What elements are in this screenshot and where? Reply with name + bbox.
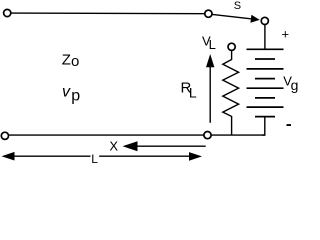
node input terminal bottom-left bbox=[1, 132, 8, 139]
wire bottom conductor bbox=[8, 134, 265, 136]
svg-text:v: v bbox=[62, 84, 71, 101]
wire battery bottom bbox=[262, 117, 265, 136]
svg-text:Z: Z bbox=[62, 51, 71, 68]
svg-text:X: X bbox=[109, 139, 118, 154]
switch S pivot node bbox=[205, 10, 212, 17]
svg-text:L: L bbox=[209, 37, 216, 52]
wire switch to battery bbox=[264, 25, 266, 49]
battery Vg minus sign bbox=[287, 124, 292, 126]
wire top conductor bbox=[9, 12, 206, 15]
switch throw node bbox=[261, 17, 268, 24]
svg-text:p: p bbox=[71, 87, 80, 104]
resistor RL zigzag bbox=[223, 50, 239, 135]
node load terminal bottom bbox=[204, 132, 211, 139]
switch S blade bbox=[212, 14, 251, 18]
svg-text:o: o bbox=[71, 53, 79, 70]
dimension arrow L bbox=[2, 152, 15, 161]
voltage arrow VL bbox=[209, 66, 211, 123]
node input terminal top-left bbox=[4, 9, 11, 16]
svg-text:+: + bbox=[282, 27, 290, 42]
svg-text:g: g bbox=[291, 77, 299, 93]
battery Vg plates bbox=[247, 49, 284, 116]
svg-text:S: S bbox=[234, 0, 241, 12]
node resistor top terminal bbox=[228, 43, 235, 50]
svg-text:L: L bbox=[91, 152, 98, 166]
svg-text:L: L bbox=[189, 84, 197, 100]
